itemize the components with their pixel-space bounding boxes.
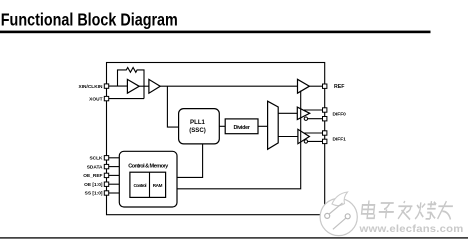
svg-text:SCLK: SCLK (89, 156, 103, 162)
svg-text:XOUT: XOUT (89, 96, 102, 102)
svg-text:REF: REF (334, 84, 345, 90)
svg-text:RAM: RAM (153, 183, 163, 188)
svg-text:XIN/CLKIN: XIN/CLKIN (79, 84, 104, 90)
svg-text:DIFF0: DIFF0 (333, 112, 347, 118)
svg-text:OE_REF: OE_REF (83, 173, 102, 179)
svg-text:Control & Memory: Control & Memory (128, 163, 169, 169)
svg-text:PLL1: PLL1 (190, 119, 206, 126)
svg-text:Divider: Divider (233, 125, 250, 131)
svg-text:DIFF1: DIFF1 (333, 136, 347, 142)
svg-text:Control: Control (134, 183, 147, 188)
svg-text:(SSC): (SSC) (189, 127, 206, 134)
svg-text:SDATA: SDATA (87, 164, 103, 170)
svg-text:OE [1:0]: OE [1:0] (84, 182, 103, 188)
svg-text:Functional Block Diagram: Functional Block Diagram (1, 10, 178, 30)
svg-text:SS [1:0]: SS [1:0] (85, 191, 103, 197)
svg-text:www.elecfans.com: www.elecfans.com (358, 224, 463, 235)
